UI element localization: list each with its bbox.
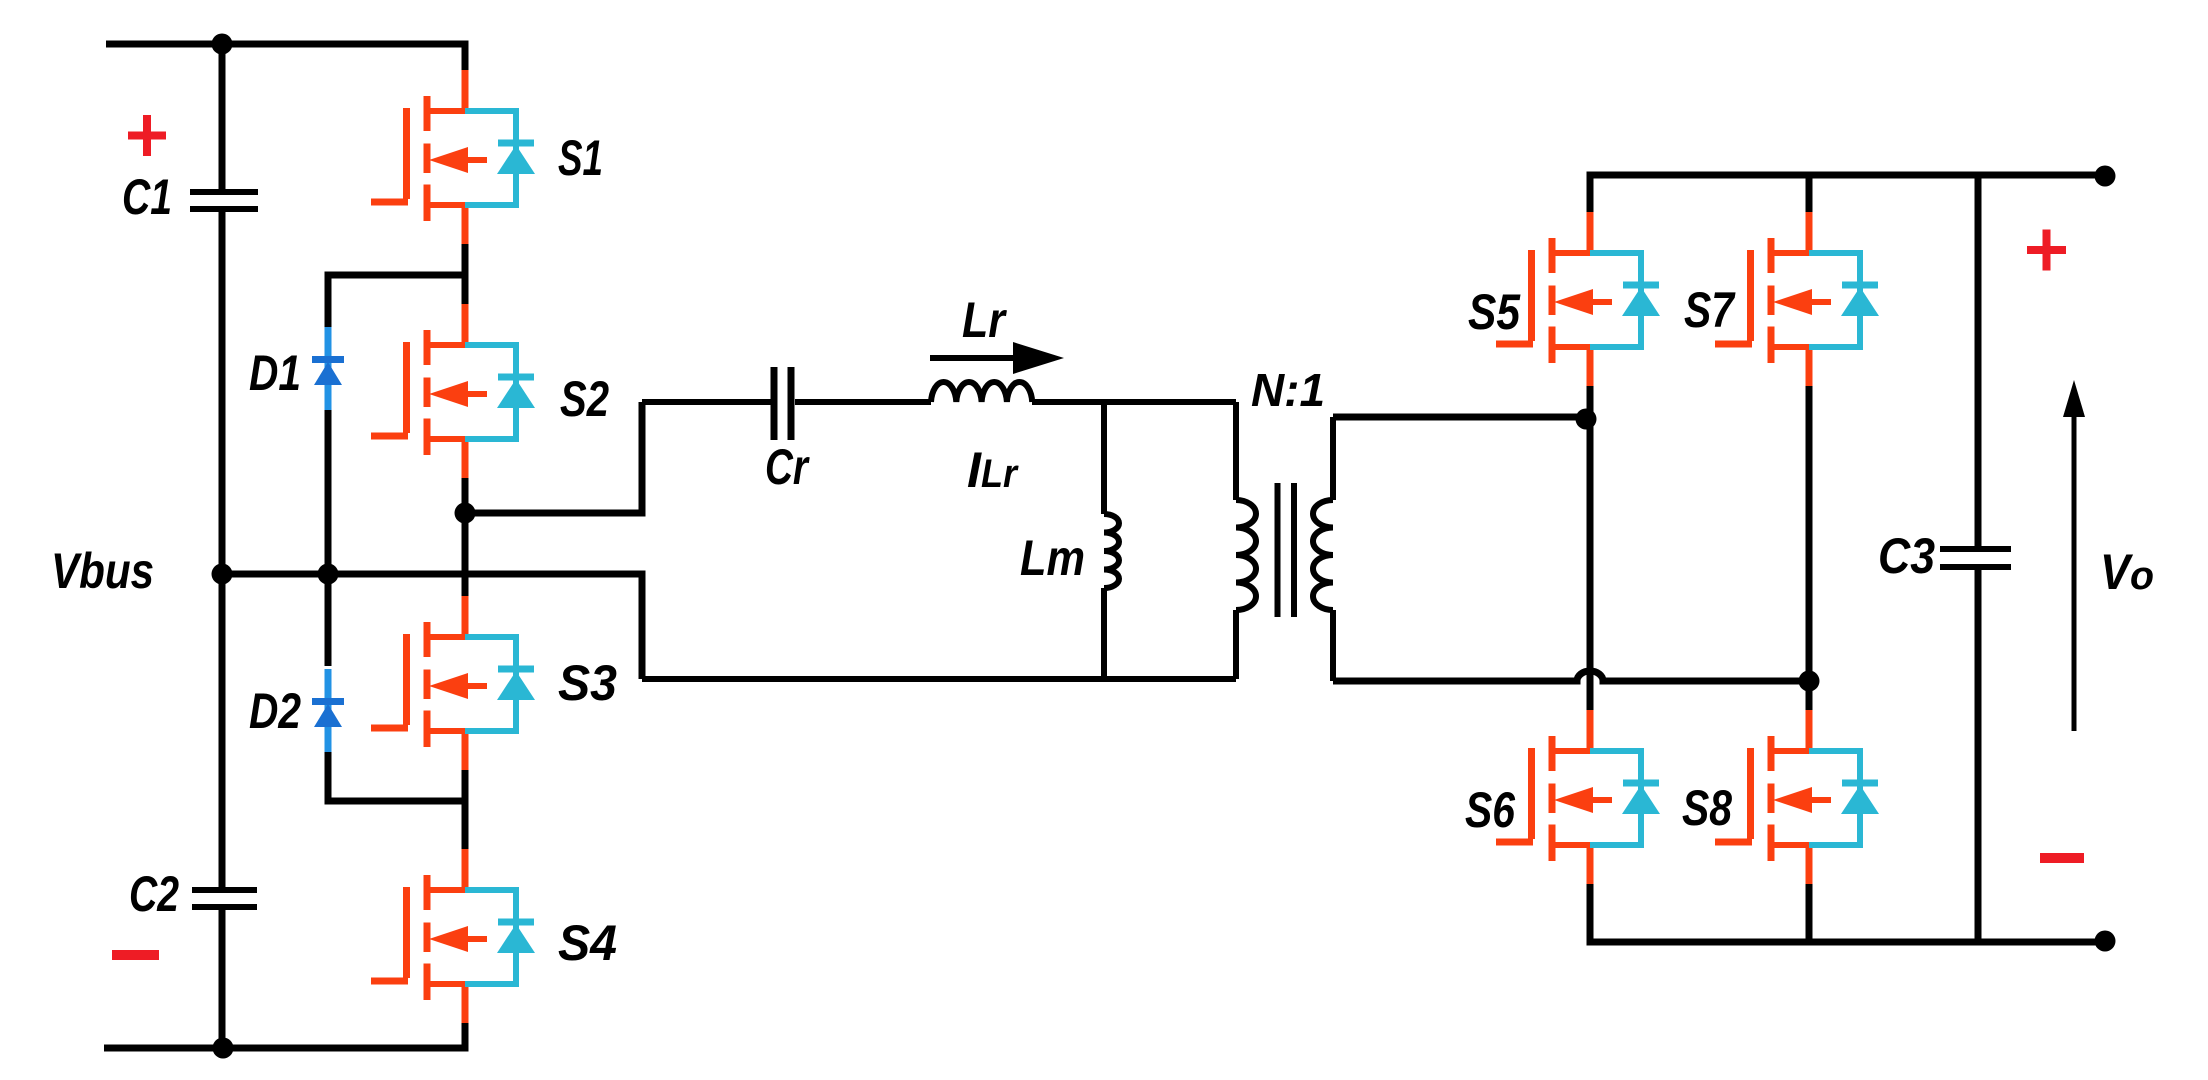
wire secondary top to S5 leg — [1333, 414, 1586, 421]
MOSFET S6 — [1496, 710, 1660, 884]
wire D-line bottom branch — [328, 736, 465, 801]
plus sign right — [2027, 230, 2066, 271]
MOSFET S5 — [1496, 212, 1660, 386]
wire left bus middle segment — [219, 212, 226, 888]
wire tank top segment 3 — [1032, 399, 1236, 405]
inductor Lm — [1104, 402, 1119, 679]
wire D-line top branch — [328, 275, 465, 327]
capacitor C2 — [192, 890, 257, 907]
svg-text:N:1: N:1 — [1251, 364, 1325, 416]
svg-text:Cr: Cr — [765, 439, 810, 495]
wire D1 to Vbus — [325, 410, 332, 574]
svg-text:C2: C2 — [129, 866, 179, 922]
svg-text:Lr: Lr — [962, 292, 1007, 348]
wire C3 leg lower — [1975, 570, 1982, 942]
wire tank top segment 1 — [642, 399, 771, 405]
wire top-left rail — [106, 44, 465, 71]
svg-text:Vbus: Vbus — [51, 543, 154, 599]
svg-text:S4: S4 — [558, 915, 617, 971]
wire C3 leg upper — [1975, 175, 1982, 547]
svg-text:S5: S5 — [1468, 284, 1521, 340]
node dot output plus — [2095, 166, 2116, 187]
inductor Lr — [931, 382, 1032, 402]
wire S7-S8 leg — [1806, 386, 1813, 710]
node dot output minus — [2095, 931, 2116, 952]
arrow Vo — [2063, 380, 2085, 731]
MOSFET S2 — [371, 304, 535, 478]
wire left leg S4-bottom — [462, 1022, 469, 1048]
MOSFET S3 — [371, 596, 535, 770]
wire Vbus horizontal to tank return — [222, 574, 642, 679]
diode D1 — [312, 327, 344, 410]
wire bottom-left rail — [104, 1022, 465, 1048]
MOSFET S4 — [371, 849, 535, 1023]
svg-text:S2: S2 — [560, 371, 609, 427]
wire left leg S2-S3 — [462, 477, 469, 597]
svg-text:C1: C1 — [122, 169, 172, 225]
node dot bottom bus — [213, 1038, 234, 1059]
svg-text:D1: D1 — [249, 345, 301, 401]
capacitor Cr — [774, 367, 791, 440]
minus sign right — [2040, 853, 2084, 863]
wire tank top segment 2 — [795, 399, 931, 405]
minus sign left — [112, 950, 159, 960]
transformer core — [1278, 483, 1295, 617]
wire right top rail — [1590, 175, 2105, 212]
node dot top bus — [212, 34, 233, 55]
capacitor C1 — [190, 192, 258, 209]
svg-text:D2: D2 — [249, 683, 301, 739]
svg-text:S3: S3 — [558, 655, 617, 711]
MOSFET S1 — [371, 70, 535, 244]
wire left bus lower segment — [219, 910, 226, 1048]
node dot Vbus bus — [212, 564, 233, 585]
svg-text:S6: S6 — [1465, 782, 1516, 838]
capacitor C3 — [1940, 549, 2011, 567]
transformer secondary winding — [1313, 417, 1333, 681]
svg-text:S1: S1 — [558, 130, 603, 186]
wire S5-S6 leg — [1587, 386, 1594, 710]
node dot secondary top — [1576, 409, 1597, 430]
svg-text:Vo: Vo — [2100, 544, 2154, 600]
svg-text:S8: S8 — [1682, 780, 1732, 836]
node dot switch node — [455, 503, 476, 524]
diode D2 — [312, 669, 344, 752]
wire left leg S1-S2 — [462, 243, 469, 307]
wire left bus upper segment — [219, 44, 226, 190]
wire left leg S3-S4 — [462, 769, 469, 850]
wire secondary bottom with hop — [1333, 671, 1809, 681]
MOSFET S8 — [1715, 710, 1879, 884]
MOSFET S7 — [1715, 212, 1879, 386]
svg-text:ILr: ILr — [967, 442, 1019, 498]
svg-text:Lm: Lm — [1020, 530, 1085, 586]
wire switch-node to tank input — [465, 402, 642, 513]
wire right bottom rail — [1590, 884, 2105, 942]
svg-text:S7: S7 — [1684, 282, 1736, 338]
wire tank bottom — [642, 676, 1236, 682]
plus sign left — [128, 115, 166, 156]
wire S7 drain stub to rail — [1806, 175, 1813, 212]
arrow ILr — [930, 342, 1064, 374]
node dot secondary bottom — [1799, 671, 1820, 692]
wire S8 source stub to rail — [1806, 884, 1813, 942]
node dot Vbus D-line — [318, 564, 339, 585]
svg-text:C3: C3 — [1878, 528, 1935, 584]
wire Vbus to D2 — [325, 574, 332, 666]
transformer primary winding — [1236, 402, 1256, 679]
